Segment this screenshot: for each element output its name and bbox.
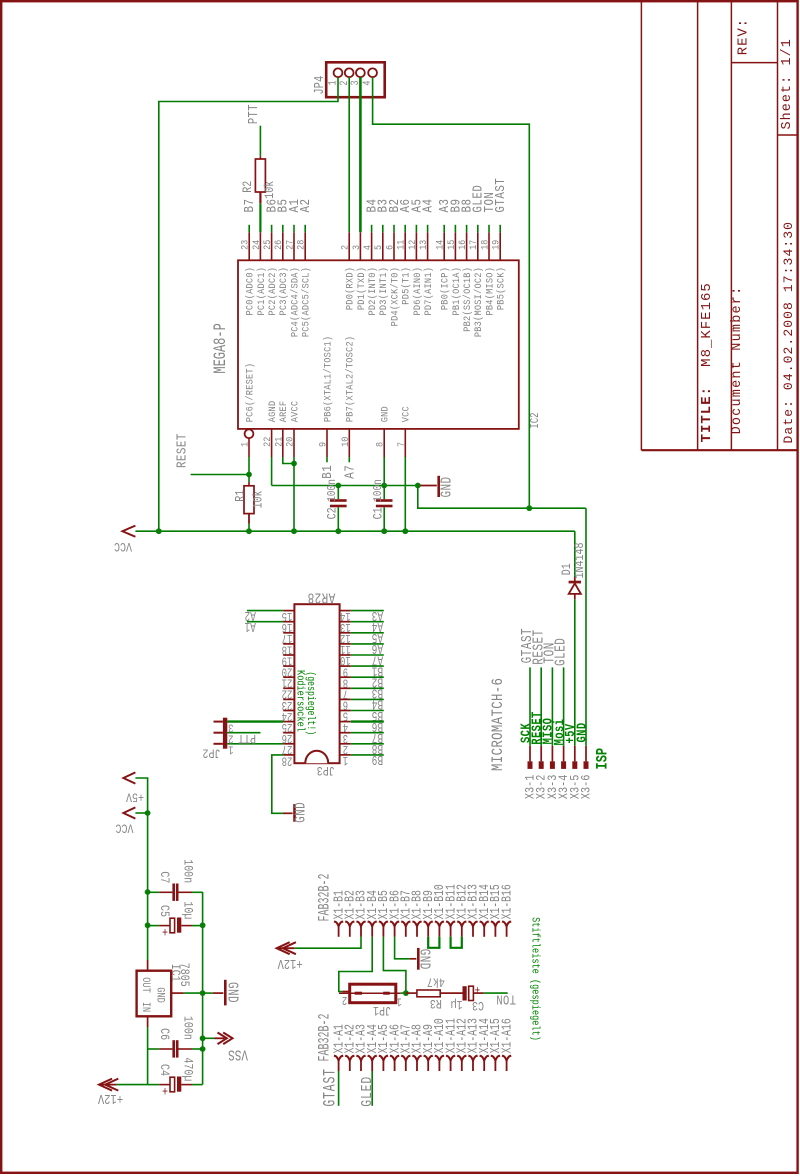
svg-text:GND: GND xyxy=(224,982,241,1003)
svg-text:JP4: JP4 xyxy=(312,76,328,95)
svg-text:21: 21 xyxy=(273,436,285,447)
svg-text:AVCC: AVCC xyxy=(289,400,301,422)
IC2 pin 25 PC2(ADC2) xyxy=(271,232,273,260)
wire net A1 at JP3 pin16 xyxy=(247,621,283,623)
svg-text:PD2(INT0): PD2(INT0) xyxy=(366,267,378,316)
JP3 pin 26 stub xyxy=(283,732,294,734)
svg-text:10k: 10k xyxy=(252,490,267,508)
IC2 pin 9 PB6(XTAL1/TOSC1) xyxy=(326,429,328,457)
wire C3 to TON xyxy=(484,992,508,994)
JP3 pin 16 stub xyxy=(283,621,294,623)
svg-text:JP3: JP3 xyxy=(317,763,335,778)
IC2 pin 24 PC1(ADC1) xyxy=(259,232,261,260)
svg-text:27: 27 xyxy=(284,240,296,250)
capacitor C2 100n xyxy=(337,486,339,500)
svg-text:PD7(AIN1): PD7(AIN1) xyxy=(422,267,434,316)
IC2 pin 13 PD7(AIN1) xyxy=(427,232,429,260)
svg-text:PC5(ADC5/SCL): PC5(ADC5/SCL) xyxy=(300,267,312,337)
svg-text:C7: C7 xyxy=(156,871,171,883)
svg-text:+5V: +5V xyxy=(126,789,144,804)
svg-text:PB6(XTAL1/TOSC1): PB6(XTAL1/TOSC1) xyxy=(322,336,334,422)
JP3 pin 1 stub xyxy=(340,754,351,756)
svg-text:PTT: PTT xyxy=(246,104,262,124)
net stub and label B3 at IC2 pin 5 xyxy=(382,225,384,233)
svg-text:PC0(ADC0): PC0(ADC0) xyxy=(244,267,256,316)
svg-text:25: 25 xyxy=(261,240,273,250)
svg-text:TON: TON xyxy=(496,991,516,1007)
resistor R3 4k7 xyxy=(406,992,417,994)
svg-text:10µ: 10µ xyxy=(180,901,195,919)
svg-text:5: 5 xyxy=(373,245,385,250)
svg-text:X1-A16: X1-A16 xyxy=(499,1018,515,1053)
svg-text:GND: GND xyxy=(574,722,590,742)
svg-text:9: 9 xyxy=(317,442,329,447)
wire X3-2 RESET xyxy=(540,667,542,745)
svg-text:C1: C1 xyxy=(371,507,386,519)
svg-text:2: 2 xyxy=(342,992,347,1005)
wire JP4-3 to IC2 PD1 xyxy=(359,77,362,232)
svg-text:REV:: REV: xyxy=(736,18,752,55)
svg-text:Sheet: 1/1: Sheet: 1/1 xyxy=(780,38,795,129)
X3 pad 2 xyxy=(539,761,544,769)
svg-text:IC2: IC2 xyxy=(529,412,542,428)
wire X1-B11 to X1-B12 xyxy=(451,937,462,948)
net RESET stub xyxy=(191,474,249,476)
JP3 notch arc xyxy=(305,751,328,764)
wire JP4-4 to GND net xyxy=(373,77,530,508)
wire AGND pin22 to GND line xyxy=(271,457,273,486)
wire and net label B1 at JP3 pin 9 xyxy=(351,665,384,667)
net stub and label A4 at IC2 pin 13 xyxy=(427,225,429,233)
wire JP3 pin27 to JP2 pin1 xyxy=(227,743,283,745)
IC U-IC2 MEGA8-P box xyxy=(238,260,519,429)
VSS arrow symbol xyxy=(203,1037,215,1039)
svg-text:VSS: VSS xyxy=(228,1046,248,1063)
IC2 pin 20 AVCC xyxy=(293,429,295,457)
svg-text:PB4(MISO): PB4(MISO) xyxy=(484,267,496,316)
svg-text:GND: GND xyxy=(379,406,391,422)
net stub and label A3 at IC2 pin 14 xyxy=(443,225,445,233)
svg-text:JP2: JP2 xyxy=(202,745,220,760)
wire GND to X3-6 xyxy=(585,508,587,746)
wire VCC pin7 down to rail xyxy=(404,457,406,531)
svg-text:PB3(MOSI/OC2): PB3(MOSI/OC2) xyxy=(473,267,485,337)
svg-text:JP1: JP1 xyxy=(373,1003,391,1018)
IC2 pin 4 PD2(INT0) xyxy=(371,232,373,260)
IC2 pin 14 PB0(ICP) xyxy=(443,232,445,260)
capacitor C3 1u electrolytic xyxy=(463,986,467,1000)
IC1 OUT pin xyxy=(147,960,149,971)
svg-text:28: 28 xyxy=(282,753,293,767)
svg-text:B1: B1 xyxy=(320,465,336,479)
IC2 pin 18 PB4(MISO) xyxy=(488,232,490,260)
IC2 pin 21 AREF xyxy=(282,429,284,457)
svg-text:1: 1 xyxy=(228,742,233,755)
svg-text:19: 19 xyxy=(490,240,502,250)
net PTT stub xyxy=(259,126,261,157)
resistor R1 xyxy=(248,475,250,483)
JP3 pin 28 stub xyxy=(283,754,294,756)
capacitor C4 470u electrolytic xyxy=(148,1084,160,1086)
wire net A2 at JP3 pin15 xyxy=(247,610,283,612)
svg-text:A1: A1 xyxy=(244,618,255,634)
wire X1-B3 to +12V xyxy=(294,937,361,948)
net stub and label B2 at IC2 pin 6 xyxy=(393,225,395,233)
IC1 GND pin lead xyxy=(171,992,184,994)
wire and net label B7 at JP3 pin 3 xyxy=(351,732,384,734)
X3 pad 1 xyxy=(528,761,533,769)
GND net line xyxy=(272,485,420,487)
svg-text:MEGA8-P: MEGA8-P xyxy=(212,323,231,373)
svg-text:Kodiersockel: Kodiersockel xyxy=(294,670,306,732)
GND rail vertical right of IC1 xyxy=(202,892,204,1085)
svg-text:6: 6 xyxy=(384,245,396,250)
ground symbol near IC2 xyxy=(420,485,437,487)
wire X1-A1 GTAST xyxy=(338,1071,340,1106)
svg-text:100n: 100n xyxy=(326,479,339,502)
svg-text:23: 23 xyxy=(239,240,251,250)
jumper JP1 xyxy=(350,984,396,1003)
svg-text:1µ: 1µ xyxy=(451,997,463,1012)
wire X3-1 GTAST xyxy=(529,667,531,745)
svg-text:GTAST: GTAST xyxy=(493,178,509,213)
svg-text:PD3(INT1): PD3(INT1) xyxy=(378,267,390,316)
JP3 pin 10 stub xyxy=(340,654,351,656)
net PTT stub at JP2 pin2 xyxy=(227,732,260,734)
IC2 pin 15 PB1(OC1A) xyxy=(454,232,456,260)
header JP2 xyxy=(223,718,227,749)
wire X1-B9 to X1-B10 xyxy=(428,937,439,948)
net stub and label B8 at IC2 pin 16 xyxy=(466,225,468,233)
net stub and label A2 at IC2 pin 28 xyxy=(304,225,306,233)
svg-text:C3: C3 xyxy=(472,998,484,1013)
ground symbol power section xyxy=(203,992,213,994)
title block lines xyxy=(640,2,642,450)
svg-text:IN: IN xyxy=(140,1002,152,1012)
svg-text:ISP: ISP xyxy=(594,748,612,770)
svg-text:PC2(ADC2): PC2(ADC2) xyxy=(266,267,278,316)
net stub and label GTAST at IC2 pin 19 xyxy=(499,225,501,233)
svg-text:(gespiegelt!): (gespiegelt!) xyxy=(305,671,317,735)
wire and net label B6 at JP3 pin 4 xyxy=(351,720,384,722)
svg-text:AR28: AR28 xyxy=(307,589,335,606)
JP3 pin 13 stub xyxy=(340,621,351,623)
capacitor C5 10u electrolytic xyxy=(148,925,160,927)
svg-text:17: 17 xyxy=(468,240,480,250)
svg-text:PC1(ADC1): PC1(ADC1) xyxy=(255,267,267,316)
wire GND line down to ISP GND xyxy=(418,486,586,509)
X3 pad 5 xyxy=(572,761,577,769)
wire +12V to IC1 IN xyxy=(117,1084,148,1086)
svg-text:+: + xyxy=(162,924,168,939)
IC2 pin 28 PC5(ADC5/SCL) xyxy=(304,232,306,260)
svg-text:PB0(ICP): PB0(ICP) xyxy=(439,267,451,310)
svg-text:MICROMATCH-6: MICROMATCH-6 xyxy=(490,678,508,771)
+5V arrow symbol xyxy=(123,772,135,783)
JP3 pin 12 stub xyxy=(340,632,351,634)
svg-text:4: 4 xyxy=(361,244,373,250)
ground symbol below JP3 xyxy=(283,812,293,814)
svg-text:3: 3 xyxy=(350,245,362,250)
JP3 pin 23 stub xyxy=(283,698,294,700)
IC2 pin 11 PD5(T1) xyxy=(404,232,406,260)
X3 pad 4 xyxy=(561,761,566,769)
wire R2 to IC2 pin24 xyxy=(259,203,261,232)
svg-text:C5: C5 xyxy=(156,905,171,917)
IC2 pin 12 PD6(AIN0) xyxy=(415,232,417,260)
net stub and label TON at IC2 pin 18 xyxy=(488,225,490,233)
svg-text:PC3(ADC3): PC3(ADC3) xyxy=(278,267,290,316)
JP3 pin 14 stub xyxy=(340,610,351,612)
wire and net label B5 at JP3 pin 5 xyxy=(351,710,384,712)
VCC arrow symbol xyxy=(122,526,135,537)
svg-text:A4: A4 xyxy=(420,199,436,213)
JP3 pin 2 stub xyxy=(340,743,351,745)
svg-text:28: 28 xyxy=(295,240,307,250)
JP3 pin 22 stub xyxy=(283,687,294,689)
JP3 pin 5 stub xyxy=(340,710,351,712)
JP3 pin 15 stub xyxy=(283,610,294,612)
svg-text:C6: C6 xyxy=(156,1028,171,1040)
svg-text:VCC: VCC xyxy=(400,406,412,422)
svg-text:X1-B16: X1-B16 xyxy=(499,884,515,919)
svg-text:Stiftleiste (gespiegelt): Stiftleiste (gespiegelt) xyxy=(529,917,541,1041)
ground symbol at X1-B6 xyxy=(410,958,417,960)
svg-text:PD1(TXD): PD1(TXD) xyxy=(355,267,367,310)
svg-text:R3: R3 xyxy=(430,995,442,1010)
JP3 pin 11 stub xyxy=(340,643,351,645)
JP3 pin 4 stub xyxy=(340,721,351,723)
wire and net label B4 at JP3 pin 6 xyxy=(351,698,384,700)
wire D1 to X3-5 xyxy=(574,599,576,746)
JP3 pin 21 stub xyxy=(283,676,294,678)
svg-text:100n: 100n xyxy=(180,1016,195,1040)
svg-text:Document Number:: Document Number: xyxy=(730,286,745,435)
svg-text:RESET: RESET xyxy=(174,433,190,468)
svg-text:4: 4 xyxy=(361,80,373,85)
wire and net label A4 at JP3 pin 13 xyxy=(351,621,384,623)
X3 pad 3 xyxy=(550,761,555,769)
JP3 pin 25 stub xyxy=(283,721,294,723)
svg-text:R2: R2 xyxy=(241,181,256,193)
IC2 pin 8 GND xyxy=(383,429,385,457)
svg-text:C2: C2 xyxy=(325,507,340,519)
IC2 pin 17 PB3(MOSI/OC2) xyxy=(477,232,479,260)
svg-text:PB5(SCK): PB5(SCK) xyxy=(495,267,507,310)
svg-text:14: 14 xyxy=(434,239,446,250)
svg-text:16: 16 xyxy=(456,240,468,250)
wire and net label B3 at JP3 pin 7 xyxy=(351,687,384,689)
+12V arrow symbol power section xyxy=(99,1084,117,1086)
svg-text:PC6(/RESET): PC6(/RESET) xyxy=(244,363,256,422)
IC2 pin 1 PC6(/RESET) xyxy=(245,429,254,438)
svg-text:VCC: VCC xyxy=(114,539,132,554)
wire X1-A4 GLED xyxy=(371,1071,373,1106)
svg-text:1: 1 xyxy=(342,752,348,766)
svg-text:PD6(AIN0): PD6(AIN0) xyxy=(411,267,423,316)
svg-text:7: 7 xyxy=(395,442,407,447)
VCC arrow symbol power section xyxy=(123,807,135,818)
wire and net label B2 at JP3 pin 8 xyxy=(351,676,384,678)
svg-text:PD0(RXD): PD0(RXD) xyxy=(344,267,356,310)
svg-text:GND: GND xyxy=(416,949,433,970)
svg-text:GTAST: GTAST xyxy=(320,1068,340,1106)
wire AREF pin21 to AVCC xyxy=(283,457,294,464)
net stub and label A1 at IC2 pin 27 xyxy=(293,225,295,233)
socket JP3 AR28 box xyxy=(294,604,339,763)
svg-text:GND: GND xyxy=(438,476,455,497)
wire GND pin8 down xyxy=(383,457,385,486)
JP3 pin 6 stub xyxy=(340,698,351,700)
svg-text:12: 12 xyxy=(406,240,418,250)
IC2 pin 7 VCC xyxy=(404,429,406,457)
svg-text:7805: 7805 xyxy=(177,963,192,987)
JP3 pin 7 stub xyxy=(340,687,351,689)
svg-text:100n: 100n xyxy=(180,859,195,883)
wire +5V to VCC vertical xyxy=(135,778,147,960)
IC2 pin 22 AGND xyxy=(271,429,273,457)
VCC net rail xyxy=(135,530,574,532)
net RESET junction and wire pin1 to R1 xyxy=(248,457,250,475)
net stub and label B4 at IC2 pin 4 xyxy=(371,225,373,233)
svg-text:1: 1 xyxy=(396,994,401,1007)
svg-text:PB1(OC1A): PB1(OC1A) xyxy=(450,267,462,316)
svg-text:Date: 04.02.2008 17:34:30: Date: 04.02.2008 17:34:30 xyxy=(781,221,796,444)
wire X1-B4 to JP1 pin2 xyxy=(339,937,372,992)
resistor R2 xyxy=(259,156,261,159)
wire and net label A5 at JP3 pin 12 xyxy=(351,632,384,634)
wire X1-B6 to ground xyxy=(395,937,410,959)
net stub and label B6 at IC2 pin 25 xyxy=(271,225,273,233)
svg-text:+: + xyxy=(162,1083,168,1098)
IC1 IN pin xyxy=(147,1016,149,1027)
net stub and label GLED at IC2 pin 17 xyxy=(477,225,479,233)
wire and net label A3 at JP3 pin 14 xyxy=(351,610,384,612)
wire JP3 pin28 to ground xyxy=(272,755,283,813)
svg-text:GLED: GLED xyxy=(360,1076,377,1107)
svg-text:GLED: GLED xyxy=(552,638,569,666)
svg-text:A7: A7 xyxy=(342,465,358,479)
svg-text:22: 22 xyxy=(262,437,274,447)
svg-text:100n: 100n xyxy=(372,479,385,502)
svg-text:11: 11 xyxy=(395,239,407,250)
connector JP4 xyxy=(326,62,385,97)
svg-text:R1: R1 xyxy=(233,490,248,502)
JP3 pin 17 stub xyxy=(283,632,294,634)
wire JP3 pin25 to JP2 pin3 xyxy=(227,720,283,722)
svg-text:PD4(XCK/T0): PD4(XCK/T0) xyxy=(389,267,401,326)
svg-text:AGND: AGND xyxy=(266,400,278,422)
svg-text:B7: B7 xyxy=(242,199,258,213)
IC2 pin 23 PC0(ADC0) xyxy=(248,232,250,260)
net stub and label A5 at IC2 pin 12 xyxy=(415,225,417,233)
svg-text:X3-6: X3-6 xyxy=(580,775,594,800)
svg-text:26: 26 xyxy=(273,240,285,250)
capacitor C6 100n xyxy=(147,1027,149,1085)
IC2 pin 19 PB5(SCK) xyxy=(499,232,501,260)
wire JP4-1 to VCC rail xyxy=(159,77,338,531)
net stub A7 at pin10 xyxy=(348,457,350,462)
svg-text:18: 18 xyxy=(479,240,491,250)
+12V arrow symbol X1 xyxy=(277,947,294,949)
JP3 pin 19 stub xyxy=(283,654,294,656)
svg-text:PC4(ADC4/SDA): PC4(ADC4/SDA) xyxy=(289,267,301,337)
wire and net label A7 at JP3 pin 10 xyxy=(351,654,384,656)
svg-text:TITLE:: TITLE: xyxy=(699,386,715,442)
svg-text:GND: GND xyxy=(154,987,166,1002)
wire and net label B8 at JP3 pin 2 xyxy=(351,743,384,745)
svg-text:24: 24 xyxy=(250,239,262,250)
X3 pad 6 xyxy=(584,761,589,769)
svg-text:10k: 10k xyxy=(263,181,278,199)
net stub and label B7 at IC2 pin 23 xyxy=(248,225,250,233)
svg-text:1: 1 xyxy=(239,441,251,447)
wire VCC arrow stub xyxy=(135,812,147,814)
IC2 pin 2 PD0(RXD) xyxy=(348,232,350,260)
JP3 pin 8 stub xyxy=(340,676,351,678)
IC2 pin 3 PD1(TXD) xyxy=(359,232,361,260)
JP3 pin 18 stub xyxy=(283,643,294,645)
svg-text:+12V: +12V xyxy=(277,956,303,972)
IC2 pin 26 PC3(ADC3) xyxy=(282,232,284,260)
net stub and label B5 at IC2 pin 26 xyxy=(282,225,284,233)
voltage regulator IC1 7805 box xyxy=(137,971,172,1017)
svg-text:2: 2 xyxy=(339,245,351,250)
JP3 pin 3 stub xyxy=(340,732,351,734)
svg-text:VCC: VCC xyxy=(115,820,133,835)
svg-text:13: 13 xyxy=(417,240,429,250)
IC2 pin 10 PB7(XTAL2/TOSC2) xyxy=(348,429,350,457)
svg-text:A2: A2 xyxy=(298,199,314,213)
svg-text:AREF: AREF xyxy=(278,401,290,423)
svg-text:B9: B9 xyxy=(372,752,383,768)
svg-text:470µ: 470µ xyxy=(180,1057,195,1081)
IC2 pin 5 PD3(INT1) xyxy=(382,232,384,260)
net stub B1 at pin9 xyxy=(326,457,328,462)
svg-text:10: 10 xyxy=(339,437,351,447)
JP3 pin 27 stub xyxy=(283,743,294,745)
capacitor C1 100n xyxy=(383,486,385,500)
wire and net label B9 at JP3 pin 1 xyxy=(351,754,384,756)
wire X1-B5 to JP1 pin1 xyxy=(383,937,406,993)
svg-text:C4: C4 xyxy=(156,1064,171,1076)
net stub and label B9 at IC2 pin 15 xyxy=(454,225,456,233)
svg-text:PTT: PTT xyxy=(238,731,256,746)
svg-text:PD5(T1): PD5(T1) xyxy=(400,267,412,305)
svg-text:8: 8 xyxy=(374,442,386,447)
JP3 pin 24 stub xyxy=(283,710,294,712)
JP3 pin 20 stub xyxy=(283,665,294,667)
svg-text:4k7: 4k7 xyxy=(427,974,445,989)
svg-text:20: 20 xyxy=(284,437,296,447)
svg-text:M8_KFE165: M8_KFE165 xyxy=(699,282,715,367)
capacitor C7 100n xyxy=(148,891,160,893)
svg-text:+12V: +12V xyxy=(97,1091,123,1107)
wire X3-3 TON xyxy=(551,667,553,745)
svg-text:OUT: OUT xyxy=(140,977,152,992)
svg-text:15: 15 xyxy=(445,240,457,250)
svg-text:PB2(SS/OC1B): PB2(SS/OC1B) xyxy=(461,267,473,332)
wire JP4-2 to IC2 PD0 xyxy=(348,77,350,232)
JP3 pin 9 stub xyxy=(340,665,351,667)
IC2 pin 27 PC4(ADC4/SDA) xyxy=(293,232,295,260)
net stub and label A6 at IC2 pin 11 xyxy=(404,225,406,233)
svg-text:GND: GND xyxy=(292,802,309,823)
diode D1 1N4148 xyxy=(574,531,576,577)
wire AVCC pin20 to VCC rail xyxy=(293,457,295,531)
svg-text:PB7(XTAL2/TOSC2): PB7(XTAL2/TOSC2) xyxy=(344,336,356,422)
wire X3-4 GLED xyxy=(563,667,565,745)
